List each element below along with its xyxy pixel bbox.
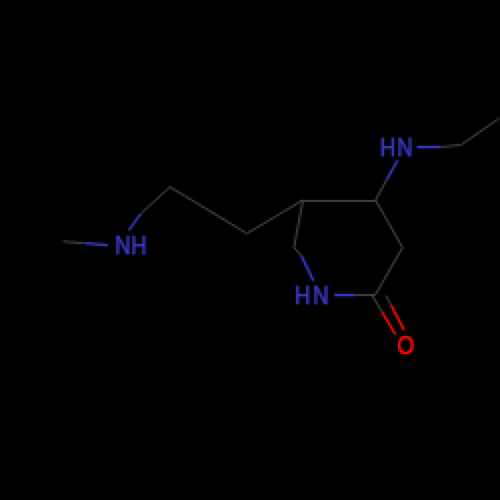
bond C2-N1 carbon half (ring bottom edge) (355, 294, 376, 296)
double bond C2=O line B oxygen half (391, 305, 404, 330)
atom label N1: HN (ring lactam NH) (295, 281, 329, 309)
bond C5-C4 (ring top edge) (303, 199, 376, 201)
bond C2-N1 nitrogen half (334, 293, 355, 295)
atom label N7: HN (ethylamino NH) (380, 134, 413, 162)
bond N1-C6 carbon half (294, 248, 302, 256)
bond C4-C3 (ring right upper edge) (376, 200, 403, 248)
bond C3-C2 (ring right lower edge) (376, 248, 403, 295)
bond N7-M2 nitrogen half (417, 145, 441, 147)
bond NL-Ca carbon half (141, 187, 170, 214)
atom label O (carbonyl oxygen) (397, 330, 414, 357)
atom label NL: NH (left secondary amine) (115, 232, 147, 260)
bond C4-N7 nitrogen half (387, 161, 398, 181)
bond V-C5 (chain to ring) (247, 200, 303, 234)
bond M2-E1 (ethyl terminal, runs toward canvas edge) (461, 119, 499, 146)
double bond C2=O line B carbon half (386, 296, 391, 306)
bond M1-NL nitrogen half (86, 243, 109, 245)
bond NL-Ca nitrogen half (129, 214, 141, 231)
bond N1-C6 nitrogen half (ring left lower edge) (302, 256, 314, 281)
bond C6-C5 (ring left edge) (294, 200, 303, 248)
bond N7-M2 carbon half (441, 145, 462, 147)
double bond C2=O line A oxygen half (382, 312, 396, 335)
bond M1-NL (methyl to left NH), carbon half (63, 242, 86, 244)
bond Ca-V (chain) (170, 187, 247, 234)
double bond C2=O line A carbon half (373, 296, 382, 312)
bond C4-N7 carbon half (376, 180, 387, 200)
